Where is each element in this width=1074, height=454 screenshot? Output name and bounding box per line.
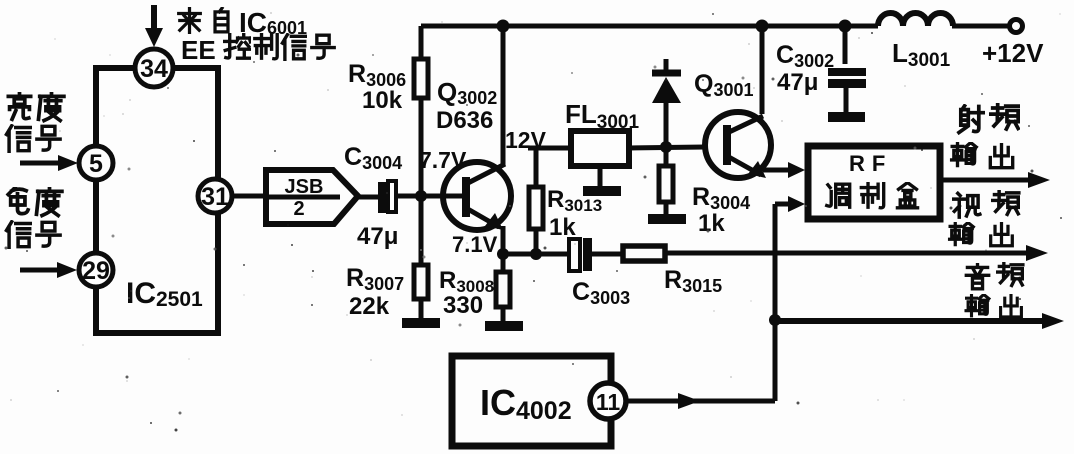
svg-text:1k: 1k xyxy=(698,210,725,237)
transistor Q3001 xyxy=(705,112,771,178)
capacitor C3003 xyxy=(569,238,592,271)
label 来自IC6001 xyxy=(179,7,307,38)
wire Q3001 emitter to RF box xyxy=(763,162,805,178)
wire +12V top rail xyxy=(421,24,878,29)
pin 5 xyxy=(79,146,113,180)
wire arrow into pin 34 (EE control) xyxy=(145,5,163,47)
svg-text:7.1V: 7.1V xyxy=(452,232,498,257)
svg-text:47μ: 47μ xyxy=(357,223,398,250)
wire C3004 to base node xyxy=(397,194,424,199)
node audio branch xyxy=(769,314,781,326)
wire pin 11 to audio node xyxy=(626,393,775,409)
svg-text:EE: EE xyxy=(181,35,216,65)
node top rail / Q3001 collector xyxy=(756,20,769,33)
wire arrow into pin 29 xyxy=(20,262,77,278)
svg-text:2: 2 xyxy=(293,198,304,220)
wire emitter row xyxy=(503,252,569,257)
wire 12V node to FL3001 xyxy=(528,146,571,151)
svg-text:47μ: 47μ xyxy=(777,69,818,96)
wire RF output line xyxy=(941,172,1050,188)
node top rail / C3002 xyxy=(839,20,852,33)
IC U-IC4002 body xyxy=(452,356,611,446)
svg-text:5: 5 xyxy=(89,150,103,178)
block RF modulator xyxy=(808,146,940,219)
svg-text:D636: D636 xyxy=(436,107,493,134)
svg-text:330: 330 xyxy=(443,292,483,319)
capacitor C3002 xyxy=(828,72,866,114)
label 色度信号 xyxy=(6,188,61,248)
node base Q3002 xyxy=(415,190,427,202)
ground R3004 xyxy=(648,214,686,224)
wire Q3001 collector to rail xyxy=(760,26,765,114)
wire arrow into pin 5 xyxy=(20,155,78,171)
ground C3002 xyxy=(828,112,865,122)
label EE控制信号 xyxy=(181,34,334,65)
label 视频输出 xyxy=(950,191,1019,246)
wire audio output line xyxy=(775,313,1064,329)
svg-text:11: 11 xyxy=(596,389,621,415)
pin 34 xyxy=(135,49,173,87)
diode D xyxy=(652,59,681,147)
IC U-IC2501 body xyxy=(96,68,218,333)
resistor R3006 xyxy=(414,26,428,196)
node top rail / Q3002 collector xyxy=(497,20,510,33)
svg-text:31: 31 xyxy=(201,183,229,211)
svg-text:10k: 10k xyxy=(362,87,403,114)
terminal +12V xyxy=(1010,20,1023,33)
node Q3002 emitter xyxy=(497,248,509,260)
label 音频输出 xyxy=(966,263,1023,317)
svg-text:29: 29 xyxy=(82,257,110,285)
label 射频输出 xyxy=(952,104,1019,167)
ground R3008 xyxy=(485,321,523,331)
ground R3007 xyxy=(402,318,440,328)
wire FL3001 to base node Q3001 xyxy=(629,147,705,148)
ground FL3001 xyxy=(583,166,621,196)
wire Q3002 collector to rail xyxy=(501,26,506,166)
wire second RF input xyxy=(775,196,805,401)
pin 31 xyxy=(198,179,232,213)
node diode/R3004/base xyxy=(660,141,672,153)
svg-text:34: 34 xyxy=(140,55,168,83)
resistor R3004 xyxy=(659,147,673,216)
label 亮度信号 xyxy=(6,93,63,152)
wire Q3002 emitter down xyxy=(501,226,506,254)
wire R3013 branch xyxy=(534,148,539,187)
wire JSB to C3004 xyxy=(357,195,378,200)
transistor Q3002 xyxy=(443,162,511,230)
filter FL3001 xyxy=(571,131,629,166)
wire video output line xyxy=(665,245,1048,261)
pin 29 xyxy=(79,253,113,287)
block JSB/2 xyxy=(266,170,358,224)
svg-text:22k: 22k xyxy=(349,293,390,320)
resistor R3015 xyxy=(623,246,665,261)
svg-text:7.7V: 7.7V xyxy=(419,147,467,173)
pin 11 xyxy=(590,383,626,419)
wire rail to C3002 xyxy=(843,26,848,64)
svg-text:RF: RF xyxy=(849,151,892,176)
inductor L3001 xyxy=(878,13,953,26)
svg-text:1k: 1k xyxy=(549,214,576,241)
wire base node to Q3002 base xyxy=(421,194,464,199)
svg-text:JSB: JSB xyxy=(285,176,324,198)
resistor R3007 xyxy=(414,196,428,321)
capacitor C3004 xyxy=(378,181,396,213)
resistor R3013 xyxy=(529,187,543,254)
wire C3003 to R3015 xyxy=(589,252,622,257)
resistor R3008 xyxy=(496,254,510,323)
node R3013 bottom xyxy=(530,248,542,260)
svg-text:+12V: +12V xyxy=(982,38,1044,68)
wire pin31 to JSB xyxy=(232,194,266,199)
